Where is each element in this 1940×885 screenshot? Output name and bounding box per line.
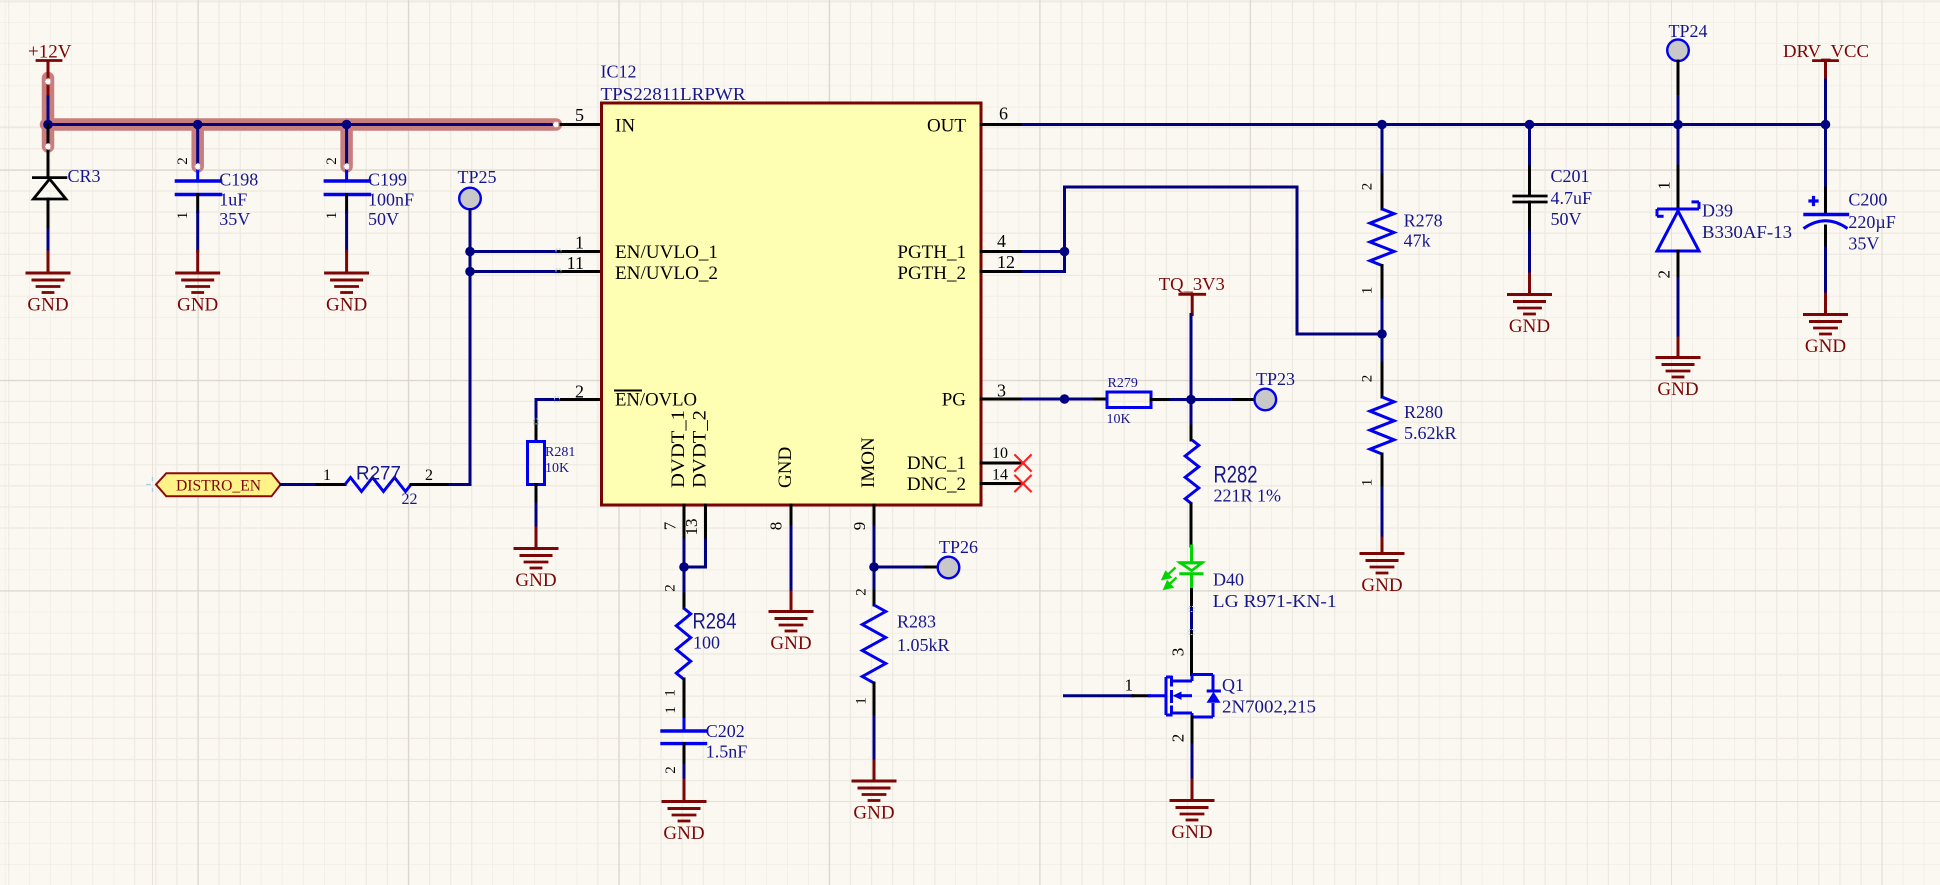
wire junction to R280	[1381, 334, 1384, 363]
svg-text:PGTH_1: PGTH_1	[897, 242, 966, 263]
svg-text:Q1: Q1	[1222, 675, 1244, 695]
svg-text:1: 1	[854, 697, 870, 705]
pin 12 PGTH_2	[981, 270, 1023, 273]
testpoint TP25	[459, 188, 481, 210]
pin 5 stub	[556, 123, 601, 126]
pin 7 DVDT_1	[683, 505, 686, 540]
svg-text:TP26: TP26	[939, 537, 978, 557]
svg-text:TPS22811LRPWR: TPS22811LRPWR	[601, 84, 746, 104]
svg-text:5: 5	[575, 105, 584, 125]
wire DISTRO_EN to R277	[281, 483, 317, 486]
pin 9 IMON	[873, 505, 876, 527]
svg-text:DVDT_2: DVDT_2	[690, 410, 711, 488]
resistor R279	[1107, 392, 1151, 408]
svg-text:1: 1	[1360, 287, 1376, 295]
svg-text:PG: PG	[942, 390, 967, 411]
svg-text:TP24: TP24	[1669, 21, 1708, 41]
svg-text:R279: R279	[1108, 376, 1138, 391]
highlight endpoint markers	[45, 79, 51, 85]
svg-text:GND: GND	[515, 570, 556, 591]
svg-text:GND: GND	[853, 803, 894, 824]
svg-text:GND: GND	[1361, 575, 1402, 596]
ground C198	[177, 272, 219, 275]
junction +12V/CR3	[43, 120, 53, 130]
svg-text:5.62kR: 5.62kR	[1404, 423, 1457, 443]
svg-text:EN/UVLO_2: EN/UVLO_2	[615, 263, 718, 284]
junction OUT/D39	[1673, 120, 1683, 130]
svg-text:GND: GND	[1657, 379, 1698, 400]
ground D39	[1657, 356, 1699, 359]
svg-text:R284: R284	[693, 609, 737, 634]
svg-text:DNC_2: DNC_2	[907, 474, 966, 495]
pin 3 PG	[981, 398, 1023, 401]
svg-text:2: 2	[1169, 734, 1188, 743]
svg-text:1: 1	[1360, 479, 1376, 487]
svg-text:14: 14	[992, 467, 1008, 484]
testpoint TP24	[1667, 40, 1689, 62]
LED D40	[1190, 546, 1193, 563]
svg-text:DRV_VCC: DRV_VCC	[1783, 41, 1869, 61]
svg-text:1: 1	[663, 689, 679, 697]
svg-text:GND: GND	[1805, 336, 1846, 357]
resistor R281	[528, 442, 545, 485]
harness port DISTRO_EN	[156, 473, 281, 496]
svg-text:GND: GND	[770, 633, 811, 654]
capacitor C202	[662, 729, 706, 732]
svg-text:GND: GND	[27, 295, 68, 316]
svg-text:22: 22	[402, 491, 418, 508]
svg-text:EN/OVLO: EN/OVLO	[615, 390, 697, 411]
wire CR3 to GND	[47, 199, 50, 230]
OUT rail wire	[1023, 123, 1826, 126]
junction R278/R280/PGTH	[1377, 329, 1387, 339]
svg-text:1: 1	[175, 212, 191, 220]
wire R284 to C202	[683, 679, 686, 720]
svg-text:DVDT_1: DVDT_1	[668, 410, 689, 488]
svg-text:R278: R278	[1404, 211, 1443, 231]
svg-text:R282: R282	[1214, 462, 1258, 489]
svg-text:4: 4	[997, 231, 1006, 251]
ground R283	[853, 780, 895, 783]
svg-text:C202: C202	[706, 721, 745, 741]
svg-text:47k: 47k	[1404, 231, 1431, 251]
svg-text:D40: D40	[1213, 570, 1244, 590]
junction C198	[193, 120, 203, 130]
svg-text:2: 2	[1360, 183, 1376, 191]
ground R281	[515, 547, 557, 550]
svg-text:DISTRO_EN: DISTRO_EN	[176, 478, 261, 495]
wire node to R282	[1190, 400, 1193, 427]
svg-text:B330AF-13: B330AF-13	[1702, 222, 1792, 242]
wire vertex markers (light blue)	[555, 397, 560, 402]
svg-text:1uF: 1uF	[219, 190, 247, 210]
svg-text:221R 1%: 221R 1%	[1214, 486, 1282, 506]
LED light arrows	[1163, 568, 1177, 589]
svg-text:2N7002,215: 2N7002,215	[1222, 697, 1316, 717]
svg-text:EN/UVLO_1: EN/UVLO_1	[615, 242, 718, 263]
svg-text:12: 12	[997, 252, 1015, 272]
pin 6 OUT stub	[981, 123, 1023, 126]
wire IMON to R283	[873, 567, 876, 591]
wire R278 to junction	[1381, 266, 1384, 301]
wire PG to R279	[1065, 398, 1096, 401]
svg-text:50V: 50V	[368, 209, 399, 229]
ground C200	[1805, 313, 1847, 316]
svg-text:2: 2	[663, 584, 679, 592]
svg-text:CR3: CR3	[68, 166, 101, 186]
capacitor C201	[1528, 125, 1531, 168]
PGTH net wire	[1063, 187, 1066, 272]
wire C199 to GND	[345, 195, 348, 213]
wire R281 to GND	[535, 485, 538, 505]
wire R282 to D40	[1190, 504, 1193, 546]
pin 14 DNC_2 no-connect	[981, 482, 1023, 485]
svg-text:100: 100	[693, 633, 720, 653]
junction PGTH	[1060, 247, 1070, 257]
svg-text:35V: 35V	[219, 209, 250, 229]
svg-text:2: 2	[854, 588, 870, 596]
svg-text:GND: GND	[177, 295, 218, 316]
svg-text:GND: GND	[1509, 316, 1550, 337]
svg-text:C201: C201	[1551, 166, 1590, 186]
svg-text:2: 2	[175, 157, 191, 165]
svg-text:LG R971-KN-1: LG R971-KN-1	[1213, 591, 1337, 611]
testpoint TP23	[1255, 389, 1277, 411]
svg-text:OUT: OUT	[927, 116, 966, 137]
wire D40 to Q1	[1190, 574, 1193, 590]
svg-text:GND: GND	[663, 823, 704, 844]
svg-text:1.05kR: 1.05kR	[897, 635, 950, 655]
wire OUT to R278	[1381, 125, 1384, 176]
wire C198 to GND	[196, 195, 199, 213]
svg-text:TP23: TP23	[1256, 369, 1295, 389]
resistor R283	[862, 605, 885, 683]
svg-text:220µF: 220µF	[1848, 212, 1895, 232]
svg-text:50V: 50V	[1551, 209, 1582, 229]
svg-text:2: 2	[1360, 375, 1376, 383]
wire EN/UVLO_1	[470, 250, 559, 253]
svg-text:35V: 35V	[1848, 234, 1879, 254]
pin 8 GND	[790, 505, 793, 527]
IC U-block IC12 TPS22811LRPWR	[602, 103, 982, 505]
pin 10 DNC_1 no-connect	[981, 462, 1023, 465]
svg-text:4.7uF: 4.7uF	[1551, 188, 1593, 208]
svg-text:2: 2	[663, 766, 679, 774]
pin 13 DVDT_2	[704, 505, 707, 540]
ground CR3	[27, 272, 69, 275]
svg-text:10K: 10K	[545, 461, 569, 476]
svg-text:TQ_3V3: TQ_3V3	[1159, 274, 1225, 294]
svg-text:11: 11	[567, 253, 584, 273]
ground C199	[326, 272, 368, 275]
svg-text:IMON: IMON	[858, 437, 879, 488]
svg-text:1: 1	[1654, 181, 1673, 190]
pin 4 PGTH_1	[981, 250, 1023, 253]
svg-text:R283: R283	[897, 612, 936, 632]
junction EN/UVLO_1	[465, 247, 475, 257]
svg-text:R277: R277	[356, 463, 401, 485]
wire TP25 to EN/UVLO	[469, 210, 472, 485]
resistor R278	[1370, 209, 1394, 266]
svg-text:10: 10	[992, 445, 1008, 462]
svg-text:DNC_1: DNC_1	[907, 453, 966, 474]
wire C201 to GND	[1528, 202, 1531, 232]
svg-text:1: 1	[324, 212, 340, 220]
wire TQ_3V3 to node	[1190, 315, 1193, 400]
junction PG	[1060, 394, 1070, 404]
svg-text:PGTH_2: PGTH_2	[897, 263, 966, 284]
svg-text:6: 6	[999, 104, 1008, 124]
svg-text:C199: C199	[368, 170, 407, 190]
wire C200 to GND	[1824, 226, 1827, 248]
svg-text:C198: C198	[219, 170, 258, 190]
junction IMON	[869, 562, 879, 572]
wire +12V rail to IN	[47, 97, 50, 125]
wire TP24 to OUT	[1677, 61, 1680, 97]
svg-text:10K: 10K	[1107, 412, 1131, 427]
svg-text:100nF: 100nF	[368, 190, 414, 210]
svg-text:R281: R281	[545, 445, 575, 460]
svg-text:2: 2	[425, 467, 433, 484]
svg-text:GND: GND	[1171, 822, 1212, 843]
resistor R277	[345, 478, 411, 492]
wire R279 to TP23 node	[1151, 398, 1171, 401]
wire R283 to GND	[873, 683, 876, 717]
svg-text:7: 7	[661, 521, 680, 530]
wire R280 to GND	[1381, 454, 1384, 488]
ground R280	[1361, 552, 1403, 555]
wire IMON to TP26	[874, 566, 925, 569]
wire EN/UVLO_2	[470, 270, 559, 273]
capacitor C200 polarized	[1824, 125, 1827, 189]
svg-text:GND: GND	[326, 295, 367, 316]
junction DVDT	[679, 562, 689, 572]
svg-text:1: 1	[1125, 676, 1134, 695]
ground C201	[1509, 293, 1551, 296]
capacitor C198	[196, 125, 199, 168]
svg-text:1: 1	[323, 467, 331, 484]
junction OUT/R278	[1377, 120, 1387, 130]
junction OUT/C201	[1525, 120, 1535, 130]
wire R277 to EN/UVLO net	[411, 483, 450, 486]
svg-text:TP25: TP25	[458, 167, 497, 187]
svg-text:IC12: IC12	[601, 62, 637, 82]
svg-text:D39: D39	[1702, 201, 1733, 221]
resistor R280	[1370, 397, 1394, 454]
svg-text:1.5nF: 1.5nF	[706, 742, 748, 762]
ground IC12 pin8	[770, 610, 812, 613]
junction C199	[342, 120, 352, 130]
svg-text:2: 2	[1654, 270, 1673, 279]
junction EN/UVLO_2	[465, 267, 475, 277]
resistor R282	[1185, 440, 1199, 504]
svg-text:C200: C200	[1848, 190, 1887, 210]
svg-text:1: 1	[663, 706, 679, 714]
svg-text:2: 2	[324, 157, 340, 165]
svg-text:3: 3	[1169, 648, 1188, 657]
net highlight +12V (pink overlay)	[46, 78, 556, 167]
svg-text:2: 2	[575, 382, 584, 402]
svg-text:R280: R280	[1404, 402, 1443, 422]
svg-text:1: 1	[575, 233, 584, 253]
ground C202	[663, 800, 705, 803]
wire node to TP23	[1191, 398, 1234, 401]
svg-text:GND: GND	[775, 447, 796, 488]
capacitor C199	[345, 125, 348, 168]
svg-text:9: 9	[850, 522, 869, 531]
diode D39 B330AF-13 schottky	[1677, 125, 1680, 167]
svg-text:8: 8	[767, 522, 786, 531]
resistor R284	[676, 608, 690, 679]
diode CR3	[47, 125, 50, 178]
wire C202 to GND	[683, 744, 686, 765]
ground Q1	[1171, 799, 1213, 802]
junction TQ_3V3/PG	[1186, 395, 1196, 405]
testpoint TP26	[938, 557, 960, 579]
wire EN/OVLO	[557, 398, 601, 401]
svg-text:IN: IN	[615, 116, 635, 137]
wire DVDT to R284	[683, 567, 686, 594]
junction OUT/C200/DRV_VCC	[1821, 120, 1831, 130]
